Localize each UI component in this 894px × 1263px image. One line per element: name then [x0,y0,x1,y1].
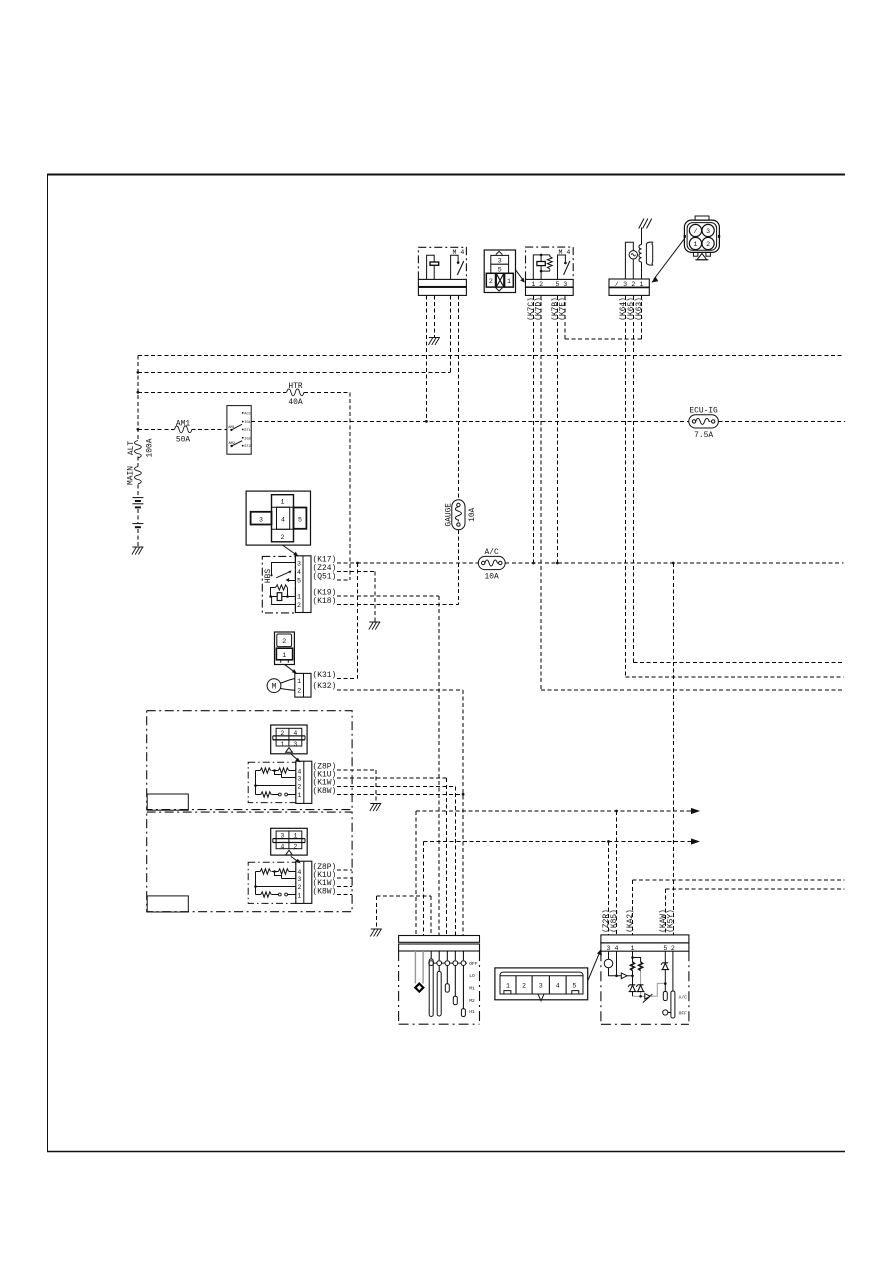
svg-text:H1: H1 [469,1009,475,1015]
svg-text:4: 4 [556,982,560,989]
svg-text:2: 2 [297,688,301,695]
svg-text:(KA2): (KA2) [626,909,635,933]
svg-text:(K18): (K18) [313,597,337,606]
svg-text:M1: M1 [469,986,475,992]
svg-text:3: 3 [259,517,263,524]
svg-text:2: 2 [297,602,301,609]
svg-text:2: 2 [297,884,301,891]
svg-text:2: 2 [671,945,675,952]
svg-text:7.5A: 7.5A [694,431,713,440]
svg-text:(K8W): (K8W) [313,787,337,796]
svg-text:ST2: ST2 [244,445,250,449]
svg-text:1: 1 [282,652,286,659]
svg-text:2: 2 [489,278,493,285]
svg-text:M: M [272,683,277,692]
svg-text:10A: 10A [484,573,498,582]
svg-text:OFF: OFF [679,1010,688,1016]
svg-text:2: 2 [282,638,286,645]
svg-text:AM1: AM1 [228,426,234,430]
svg-text:100A: 100A [146,438,155,457]
svg-text:OFF: OFF [469,961,478,967]
svg-text:MAIN: MAIN [127,466,136,485]
svg-text:M 4: M 4 [453,249,465,256]
svg-text:2: 2 [297,784,301,791]
svg-text:/: / [615,281,619,288]
svg-text:4: 4 [297,569,301,576]
svg-text:1: 1 [281,499,285,506]
svg-text:A/C: A/C [484,548,498,557]
svg-text:1: 1 [631,945,635,952]
svg-text:5: 5 [298,517,302,524]
svg-text:AM2: AM2 [229,442,235,446]
svg-text:4: 4 [615,945,619,952]
svg-text:3: 3 [297,561,301,568]
svg-text:4: 4 [297,869,301,876]
svg-text:3: 3 [498,258,502,265]
svg-text:2: 2 [293,844,297,851]
svg-text:1: 1 [297,893,301,900]
svg-text:HTR: HTR [288,382,302,391]
svg-text:5: 5 [498,266,502,273]
svg-text:5: 5 [572,982,576,989]
svg-text:1: 1 [297,678,301,685]
svg-text:3: 3 [539,982,543,989]
svg-text:5: 5 [297,578,301,585]
svg-text:5: 5 [556,281,560,288]
svg-text:(K85): (K85) [610,909,619,933]
svg-text:2: 2 [281,534,285,541]
svg-text:1: 1 [293,833,297,840]
svg-text:LO: LO [469,973,475,979]
svg-text:M2: M2 [469,998,475,1004]
svg-text:2: 2 [522,982,526,989]
svg-text:HBS: HBS [264,569,273,583]
svg-text:ACC: ACC [244,412,250,416]
svg-text:ALT: ALT [127,441,136,455]
svg-text:1: 1 [506,982,510,989]
svg-text:4: 4 [281,517,285,524]
svg-text:(K32): (K32) [313,682,337,691]
svg-text:1: 1 [507,278,511,285]
svg-text:(K5Y): (K5Y) [667,909,676,933]
svg-text:3: 3 [293,741,297,748]
svg-text:(K63): (K63) [635,297,644,321]
svg-text:2: 2 [706,241,710,248]
svg-text:IG2: IG2 [244,437,250,441]
svg-text:1: 1 [640,281,644,288]
svg-text:/: / [694,228,698,235]
svg-text:3: 3 [280,833,284,840]
svg-text:3: 3 [607,945,611,952]
svg-text:(K7E): (K7E) [559,297,568,321]
svg-text:2: 2 [539,281,543,288]
svg-text:GAUGE: GAUGE [445,503,454,527]
svg-text:(K7D): (K7D) [535,297,544,321]
svg-text:ECU-IG: ECU-IG [689,407,718,416]
svg-text:10A: 10A [468,507,477,521]
svg-text:1: 1 [297,792,301,799]
svg-text:M 4: M 4 [559,249,571,256]
svg-text:4: 4 [297,768,301,775]
svg-text:40A: 40A [288,398,302,407]
svg-text:1: 1 [297,594,301,601]
svg-text:1: 1 [531,281,535,288]
svg-text:1: 1 [280,741,284,748]
svg-text:3: 3 [563,281,567,288]
svg-text:AM1: AM1 [176,420,190,429]
svg-text:4: 4 [293,730,297,737]
svg-text:(Q51): (Q51) [313,573,337,582]
svg-text:(K8W): (K8W) [313,887,337,896]
svg-text:4: 4 [280,844,284,851]
svg-text:IG1: IG1 [244,421,250,425]
svg-text:A/C: A/C [679,994,688,1000]
svg-text:2: 2 [280,730,284,737]
svg-text:(K31): (K31) [313,671,337,680]
svg-text:50A: 50A [176,436,190,445]
svg-text:1: 1 [694,241,698,248]
svg-text:3: 3 [297,876,301,883]
svg-text:3: 3 [297,776,301,783]
svg-text:ST1: ST1 [244,429,250,433]
svg-text:3: 3 [706,228,710,235]
svg-text:2: 2 [631,281,635,288]
svg-text:3: 3 [623,281,627,288]
svg-text:5: 5 [663,945,667,952]
